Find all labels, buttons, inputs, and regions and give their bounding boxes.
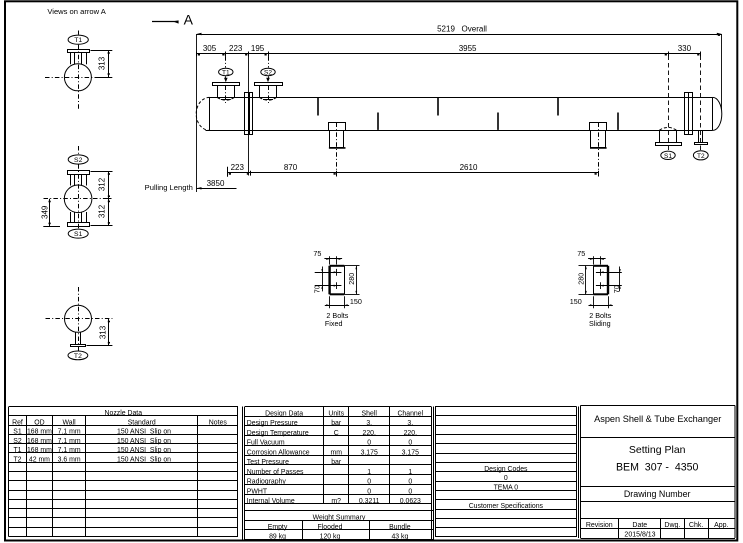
svg-text:Customer Specifications: Customer Specifications [469, 503, 544, 510]
svg-text:220.: 220. [404, 430, 417, 437]
svg-text:BEM 307 - 4350: BEM 307 - 4350 [616, 461, 699, 473]
svg-text:Flooded: Flooded [318, 524, 343, 531]
svg-text:Design Temperature: Design Temperature [247, 430, 309, 437]
svg-text:Design Codes: Design Codes [484, 466, 528, 473]
svg-text:S2: S2 [13, 438, 22, 445]
svg-text:T1: T1 [13, 447, 21, 454]
svg-text:280: 280 [347, 273, 356, 285]
svg-text:bar: bar [331, 420, 342, 427]
svg-text:Standard: Standard [128, 419, 156, 426]
svg-text:Fixed: Fixed [325, 319, 343, 328]
svg-text:T2: T2 [13, 456, 21, 463]
svg-text:150 ANSI Slip on: 150 ANSI Slip on [117, 447, 171, 454]
svg-text:42 mm: 42 mm [29, 456, 50, 463]
svg-text:App.: App. [714, 522, 728, 529]
svg-text:Sliding: Sliding [589, 319, 611, 328]
svg-text:S1: S1 [74, 231, 83, 238]
svg-text:Radiography: Radiography [247, 479, 287, 486]
svg-text:Setting Plan: Setting Plan [629, 444, 686, 456]
svg-text:OD: OD [34, 419, 44, 426]
svg-text:313: 313 [99, 325, 108, 339]
svg-text:Revision: Revision [586, 522, 613, 529]
svg-text:2610: 2610 [460, 163, 478, 172]
svg-text:Test Pressure: Test Pressure [247, 459, 289, 466]
svg-text:75: 75 [577, 249, 585, 258]
svg-text:0: 0 [504, 475, 508, 482]
svg-text:150 ANSI Slip on: 150 ANSI Slip on [117, 438, 171, 445]
svg-text:Views on arrow A: Views on arrow A [47, 7, 106, 16]
svg-text:Date: Date [632, 522, 647, 529]
svg-text:0.3211: 0.3211 [359, 498, 380, 505]
svg-text:330: 330 [678, 44, 692, 53]
svg-text:Ref: Ref [12, 419, 23, 426]
svg-text:Pulling Length: Pulling Length [145, 183, 193, 192]
svg-text:C: C [334, 430, 339, 437]
svg-text:7.1 mm: 7.1 mm [58, 429, 81, 436]
svg-text:220.: 220. [362, 430, 375, 437]
svg-text:T1: T1 [222, 69, 230, 76]
svg-text:S2: S2 [74, 157, 83, 164]
svg-text:89 kg: 89 kg [269, 534, 286, 541]
svg-text:Nozzle Data: Nozzle Data [105, 410, 143, 417]
svg-text:5219 Overall: 5219 Overall [437, 24, 487, 33]
svg-text:Dwg.: Dwg. [664, 522, 680, 529]
svg-text:312: 312 [98, 204, 107, 218]
svg-text:223: 223 [231, 163, 245, 172]
svg-text:PWHT: PWHT [247, 488, 268, 495]
svg-text:43 kg: 43 kg [391, 534, 408, 541]
svg-text:3.6 mm: 3.6 mm [58, 456, 81, 463]
svg-text:312: 312 [98, 177, 107, 191]
svg-text:223: 223 [229, 44, 243, 53]
svg-text:870: 870 [284, 163, 298, 172]
svg-text:Units: Units [328, 410, 344, 417]
svg-text:3.: 3. [407, 420, 413, 427]
svg-text:0.0623: 0.0623 [400, 498, 421, 505]
svg-text:Full Vacuum: Full Vacuum [247, 440, 285, 447]
svg-text:Channel: Channel [397, 410, 423, 417]
svg-text:T2: T2 [74, 353, 82, 360]
svg-text:Design Pressure: Design Pressure [247, 420, 298, 427]
svg-text:Empty: Empty [268, 524, 288, 531]
svg-text:313: 313 [98, 56, 107, 70]
svg-text:1: 1 [408, 469, 412, 476]
svg-text:Drawing Number: Drawing Number [624, 489, 691, 499]
svg-text:Corrosion Allowance: Corrosion Allowance [247, 449, 310, 456]
svg-text:0: 0 [367, 479, 371, 486]
svg-text:1: 1 [367, 469, 371, 476]
svg-text:70: 70 [313, 285, 322, 293]
svg-text:Design Data: Design Data [265, 410, 303, 417]
svg-text:0: 0 [408, 479, 412, 486]
svg-text:Wall: Wall [63, 419, 77, 426]
svg-text:150 ANSI Slip on: 150 ANSI Slip on [117, 456, 171, 463]
svg-text:195: 195 [251, 44, 265, 53]
svg-text:120 kg: 120 kg [320, 534, 341, 541]
svg-text:Bundle: Bundle [389, 524, 411, 531]
svg-text:349: 349 [41, 205, 50, 219]
svg-text:168 mm: 168 mm [27, 429, 52, 436]
svg-text:mm: mm [330, 449, 342, 456]
svg-text:280: 280 [576, 273, 585, 285]
svg-text:TEMA 0: TEMA 0 [494, 484, 519, 491]
svg-text:3.: 3. [366, 420, 372, 427]
svg-text:3955: 3955 [459, 44, 477, 53]
svg-text:0: 0 [367, 440, 371, 447]
svg-text:Shell: Shell [362, 410, 378, 417]
svg-text:Weight Summary: Weight Summary [313, 514, 366, 521]
svg-text:m?: m? [331, 498, 341, 505]
svg-text:168 mm: 168 mm [27, 438, 52, 445]
svg-text:3.175: 3.175 [402, 449, 419, 456]
svg-text:S1: S1 [13, 429, 22, 436]
svg-text:3.175: 3.175 [361, 449, 378, 456]
svg-text:S2: S2 [264, 69, 272, 76]
svg-text:70: 70 [612, 285, 621, 293]
svg-text:0: 0 [408, 488, 412, 495]
svg-text:150: 150 [570, 297, 582, 306]
svg-text:7.1 mm: 7.1 mm [58, 447, 81, 454]
svg-text:305: 305 [203, 44, 217, 53]
svg-text:3850: 3850 [207, 179, 225, 188]
svg-text:Number of Passes: Number of Passes [247, 469, 304, 476]
svg-text:T2: T2 [697, 153, 705, 160]
svg-text:0: 0 [367, 488, 371, 495]
svg-text:75: 75 [313, 249, 321, 258]
svg-text:Notes: Notes [209, 419, 228, 426]
svg-text:Internal Volume: Internal Volume [247, 498, 295, 505]
svg-text:Chk.: Chk. [689, 522, 703, 529]
svg-text:bar: bar [331, 459, 342, 466]
svg-text:150: 150 [350, 297, 362, 306]
svg-text:S1: S1 [664, 153, 672, 160]
svg-text:7.1 mm: 7.1 mm [58, 438, 81, 445]
svg-text:T1: T1 [74, 37, 82, 44]
svg-text:Aspen Shell & Tube Exchanger: Aspen Shell & Tube Exchanger [594, 414, 721, 424]
svg-text:0: 0 [408, 440, 412, 447]
svg-text:168 mm: 168 mm [27, 447, 52, 454]
svg-text:150 ANSI Slip on: 150 ANSI Slip on [117, 429, 171, 436]
svg-text:2015/8/13: 2015/8/13 [624, 532, 655, 539]
svg-text:A: A [184, 11, 194, 27]
